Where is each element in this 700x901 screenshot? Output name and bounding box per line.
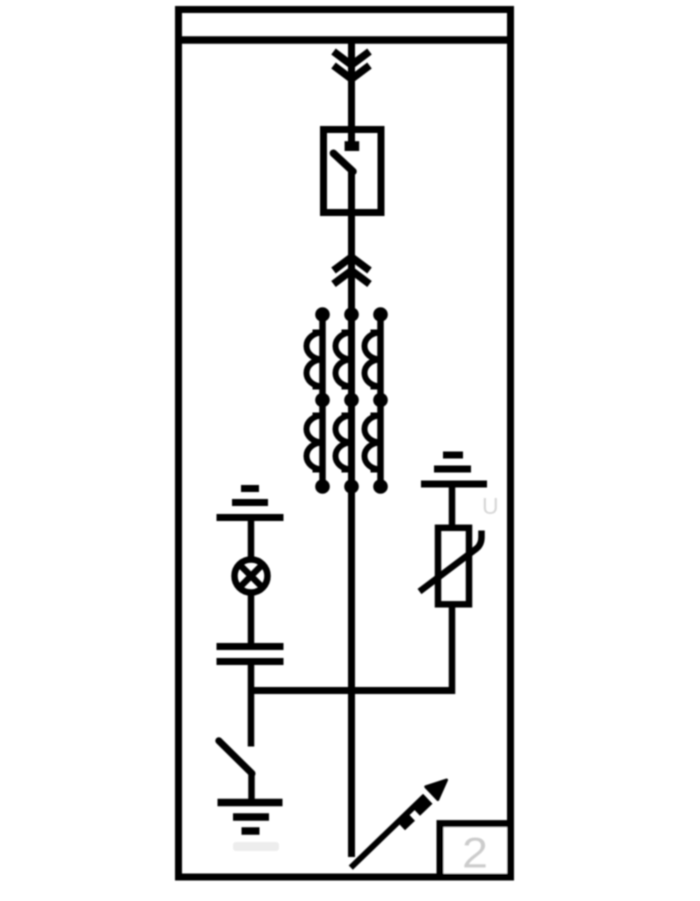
- panel frame: [179, 10, 511, 878]
- wire: lamp branch upper stem: [248, 518, 255, 561]
- label box: [440, 824, 511, 877]
- wire: earthing switch stem: [248, 773, 255, 800]
- withdrawable contact (lower, double chevron up): [334, 257, 370, 284]
- withdrawable contact (upper, double chevron down): [334, 52, 370, 80]
- capacitor: [217, 647, 284, 662]
- wire: lamp branch lower stem: [248, 593, 255, 644]
- earthing switch blade: [219, 741, 252, 774]
- ground (inverted) above lamp branch: [217, 489, 284, 518]
- wire: surge arrester upper stem: [449, 484, 456, 530]
- voltage transformer winding column right: [365, 307, 388, 494]
- wire: horizontal bus: [251, 687, 452, 694]
- wire: surge arrester lower stem: [449, 604, 456, 694]
- indicator lamp: [235, 560, 268, 593]
- wire: main vertical: [348, 170, 355, 857]
- withdrawable truck arrow head: [426, 780, 447, 800]
- ground (inverted) above surge arrester: [421, 455, 487, 484]
- breaker fixed contact dot: [345, 141, 360, 151]
- faint smudge: [233, 842, 279, 851]
- withdrawable truck arrow sleeve segment 2: [416, 799, 429, 811]
- svg-text:2: 2: [462, 830, 488, 878]
- busbar compartment line: [175, 36, 514, 44]
- wire: incoming feeder drop: [348, 40, 355, 146]
- surge arrester body: [438, 528, 469, 605]
- withdrawable truck arrow shaft: [351, 796, 425, 868]
- wire: left branch below capacitor: [248, 665, 255, 747]
- circuit breaker box: [324, 130, 382, 213]
- breaker switch blade: [333, 153, 353, 171]
- surge arrester diagonal with hook: [420, 531, 482, 592]
- svg-text:U: U: [482, 493, 499, 519]
- withdrawable truck arrow sleeve segment 1: [401, 816, 411, 826]
- voltage transformer winding column center: [336, 307, 359, 494]
- ground (earthing switch): [218, 803, 283, 832]
- voltage transformer winding column left: [307, 307, 330, 494]
